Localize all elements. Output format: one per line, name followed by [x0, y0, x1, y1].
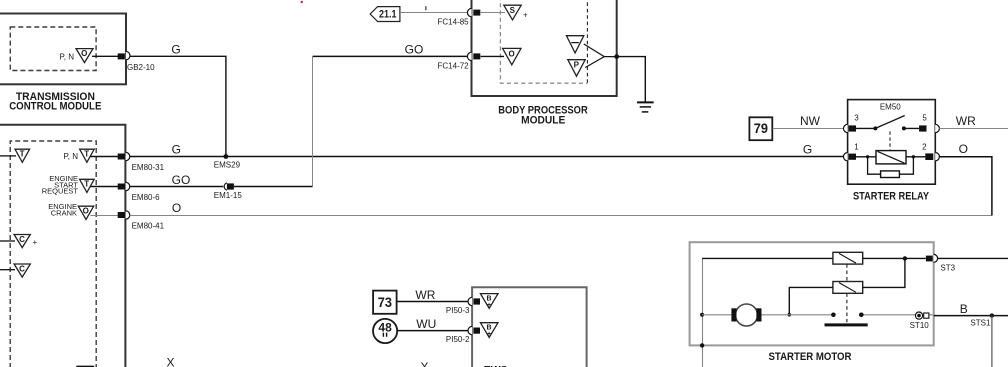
triangle C+ (battery) — [14, 235, 37, 248]
wire flag to FC14-85 (thin) — [400, 12, 467, 14]
sensor triangle O (P, N switch) — [59, 49, 93, 63]
svg-text:C: C — [19, 235, 25, 244]
svg-text:NW: NW — [800, 114, 821, 128]
wire from ST3 to page edge — [938, 257, 1008, 259]
wire GO continues to riser — [234, 186, 313, 188]
red speck — [301, 1, 303, 3]
svg-text:GO: GO — [405, 43, 424, 57]
svg-text:PI50-3: PI50-3 — [446, 306, 470, 315]
triangle P — [568, 60, 585, 76]
svg-text:79: 79 — [754, 120, 768, 136]
svg-text:T: T — [84, 149, 89, 158]
svg-text:EM80-41: EM80-41 — [132, 222, 165, 231]
triangle T (P, N) — [63, 149, 94, 162]
wire G from GB2-10 — [130, 56, 226, 156]
module box: engine control module (cut off at bottom/left) — [0, 125, 125, 367]
wire hold winding left down to motor bus — [789, 287, 833, 314]
junction at motor level — [700, 313, 704, 317]
wire G long run to starter relay pin 1 — [130, 156, 844, 158]
pin 3 — [844, 114, 860, 133]
pin ST10 — [910, 312, 930, 330]
svg-text:PI50-2: PI50-2 — [446, 335, 470, 344]
motor M — [731, 304, 761, 326]
svg-text:3: 3 — [854, 114, 859, 123]
power reference box 73 — [373, 291, 397, 314]
svg-text:ST10: ST10 — [910, 321, 930, 330]
svg-text:CRANK: CRANK — [51, 208, 77, 217]
svg-text:P: P — [574, 60, 580, 69]
svg-text:EM80-31: EM80-31 — [132, 163, 165, 172]
module box: BODY PROCESSOR MODULE (top cut off) — [472, 0, 617, 96]
junction at box bottom — [700, 343, 704, 347]
solenoid feed wire top — [702, 257, 833, 259]
module box: PI50 module (cut off at bottom) — [472, 287, 586, 367]
svg-text:GO: GO — [172, 173, 191, 187]
pin GB2-10 — [118, 51, 155, 71]
svg-text:EMS29: EMS29 — [214, 161, 241, 170]
pin EM80-6 — [118, 182, 160, 202]
pin PI50-2 — [446, 326, 480, 344]
wire node to ground — [617, 57, 646, 102]
triangle C — [14, 264, 30, 277]
wire NW (thin) — [773, 128, 844, 130]
svg-text:1: 1 — [854, 143, 859, 152]
svg-text:WR: WR — [956, 114, 976, 128]
node ST3 branch — [903, 256, 907, 260]
wire WR from pin 5 (thin) — [939, 128, 1008, 130]
wire GO to inline connector EM1-15 — [130, 186, 223, 188]
svg-text:REQUEST: REQUEST — [42, 187, 79, 196]
svg-text:STS1: STS1 — [970, 319, 991, 328]
pin FC14-72 — [438, 52, 481, 70]
pin EM80-31 — [118, 152, 165, 172]
svg-text:5: 5 — [922, 114, 927, 123]
component box: STARTER RELAY — [848, 100, 936, 185]
svg-text:G: G — [803, 142, 812, 156]
svg-text:+: + — [33, 238, 38, 247]
solenoid hold-in winding — [833, 282, 863, 294]
svg-text:CONTROL MODULE: CONTROL MODULE — [9, 100, 101, 112]
triangle T (left) — [15, 149, 30, 162]
pin 1 — [844, 143, 860, 161]
svg-text:2: 2 — [922, 143, 927, 152]
wire O long run (thin) — [130, 215, 992, 217]
svg-text:G: G — [172, 142, 181, 156]
wire to C+ — [0, 240, 15, 242]
module box: TRANSMISSION CONTROL MODULE — [0, 14, 126, 85]
internal riser wire (thin) — [702, 258, 704, 367]
dashed internal boundary (ECM) — [10, 141, 96, 367]
splice STS1 — [970, 313, 994, 327]
pin FC14-85 — [438, 8, 481, 26]
power reference circle 48 — [373, 319, 397, 343]
svg-text:WR: WR — [415, 288, 435, 302]
pin EM80-41 — [118, 211, 165, 231]
svg-text:EM80-6: EM80-6 — [132, 193, 161, 202]
component box: STARTER MOTOR — [690, 242, 934, 345]
wire to triangle O — [481, 55, 504, 57]
svg-text:O: O — [508, 50, 514, 59]
solenoid pull-in winding — [833, 252, 863, 264]
svg-text:STARTER MOTOR: STARTER MOTOR — [769, 351, 852, 363]
triangle T (engine start request) — [42, 174, 94, 196]
wire to pin EM80-41 (thin) — [90, 215, 118, 217]
wire GO top run to FC14-72 — [313, 55, 468, 57]
svg-text:+: + — [487, 302, 491, 309]
wire O from pin 2 — [939, 157, 992, 216]
suppression resistor — [881, 171, 900, 178]
pin ST3 — [926, 254, 956, 272]
svg-text:WU: WU — [416, 317, 436, 331]
svg-text:73: 73 — [378, 294, 392, 310]
wire WR to PI50-3 — [397, 301, 468, 303]
inline connector EM1-15 — [214, 183, 243, 200]
svg-text:+: + — [523, 11, 528, 20]
svg-text:+: + — [487, 331, 491, 338]
dashed actuator link — [889, 131, 891, 150]
svg-text:P, N: P, N — [63, 152, 78, 161]
svg-text:ST3: ST3 — [940, 264, 955, 273]
wire triangle to pin GB2-10 — [92, 55, 118, 57]
triangle minus — [566, 36, 583, 53]
svg-text:O: O — [959, 142, 968, 156]
triangle O (engine crank) — [48, 202, 93, 219]
svg-text:X: X — [167, 356, 175, 367]
svg-text:FC14-85: FC14-85 — [438, 18, 470, 27]
wire hold winding right to ST3 node — [863, 258, 905, 287]
svg-text:O: O — [172, 201, 181, 215]
svg-text:S: S — [510, 6, 516, 15]
wire WU to PI50-2 — [397, 330, 468, 332]
ground — [637, 102, 654, 112]
wire down from STS1 — [991, 316, 993, 367]
svg-text:GB2-10: GB2-10 — [127, 63, 155, 72]
dashed internal boundary left/bottom (BPM) — [500, 0, 587, 83]
motor bus wires (thin) — [702, 314, 934, 316]
wire GO riser (thin) — [312, 56, 314, 186]
svg-text:G: G — [171, 43, 180, 57]
wire B to page edge — [934, 315, 1008, 317]
relay coil — [876, 151, 906, 164]
svg-text:EM1-15: EM1-15 — [214, 191, 243, 200]
svg-text:21.1: 21.1 — [379, 8, 397, 20]
wire stub at bottom — [76, 365, 94, 367]
triangle B+ (upper) — [480, 294, 498, 309]
triangle S+ — [504, 5, 528, 20]
svg-text:X: X — [421, 360, 429, 367]
wire to pin EM80-31 — [91, 156, 119, 158]
resistor branch wires — [868, 157, 914, 174]
svg-text:B: B — [960, 302, 968, 316]
wires from minus/P converge to node — [584, 44, 617, 68]
dashed plunger link — [846, 264, 848, 322]
contact studs — [831, 313, 836, 318]
dashed internal boundary right (BPM) — [586, 0, 588, 83]
wire winding to ST3 node — [863, 257, 926, 259]
wire to left triangle T — [0, 155, 16, 157]
svg-text:O: O — [83, 206, 89, 215]
pin 5 — [919, 114, 939, 133]
svg-text:P, N: P, N — [59, 52, 74, 61]
svg-text:EM50: EM50 — [880, 102, 901, 111]
svg-text:O: O — [81, 49, 87, 58]
svg-text:T: T — [84, 179, 89, 188]
moving contact bar — [825, 323, 868, 326]
wire to C — [0, 269, 15, 271]
splice EMS29 — [214, 154, 241, 169]
tick mark on wire — [425, 6, 427, 10]
svg-text:FC14-72: FC14-72 — [438, 61, 470, 70]
dashed internal boundary (TCM) — [10, 27, 96, 71]
relay switch wiring — [856, 127, 919, 129]
svg-text:C: C — [19, 264, 25, 273]
svg-text:48: 48 — [378, 320, 392, 334]
pin PI50-3 — [446, 297, 480, 315]
svg-text:STARTER RELAY: STARTER RELAY — [853, 190, 930, 202]
pin 2 — [922, 143, 939, 161]
wire to triangle S (thin) — [481, 12, 505, 14]
triangle B+ (lower) — [480, 323, 498, 338]
switch blade — [875, 116, 904, 129]
node on BPM edge — [614, 54, 619, 59]
svg-text:T: T — [20, 149, 25, 158]
wire to pin EM80-6 — [91, 186, 119, 188]
page reference flag 21.1 — [370, 7, 400, 22]
coil feed wires — [856, 156, 925, 158]
triangle O (BPM) — [503, 48, 521, 64]
svg-text:MODULE: MODULE — [521, 115, 565, 127]
ground reference box 79 — [749, 117, 772, 140]
